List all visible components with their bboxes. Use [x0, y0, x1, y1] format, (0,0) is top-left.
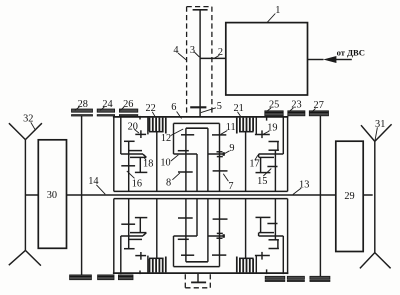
svg-text:4: 4: [173, 45, 178, 56]
svg-text:23: 23: [291, 99, 301, 110]
svg-text:6: 6: [171, 102, 176, 113]
svg-text:16: 16: [132, 179, 142, 190]
svg-text:20: 20: [128, 121, 138, 132]
svg-text:32: 32: [23, 114, 33, 125]
svg-text:22: 22: [145, 103, 155, 114]
svg-text:1: 1: [275, 5, 280, 16]
svg-text:15: 15: [257, 176, 267, 187]
svg-text:9: 9: [229, 143, 234, 154]
svg-text:19: 19: [267, 123, 277, 134]
svg-text:17: 17: [249, 159, 259, 170]
svg-text:24: 24: [102, 99, 112, 110]
svg-text:30: 30: [47, 190, 57, 201]
svg-text:от ДВС: от ДВС: [337, 47, 365, 57]
svg-text:21: 21: [233, 103, 243, 114]
svg-text:26: 26: [123, 99, 133, 110]
svg-text:31: 31: [375, 119, 385, 130]
svg-text:18: 18: [143, 159, 153, 170]
svg-text:28: 28: [78, 99, 88, 110]
svg-text:29: 29: [344, 191, 354, 202]
svg-text:3: 3: [190, 45, 195, 56]
svg-text:7: 7: [228, 181, 233, 192]
svg-text:13: 13: [299, 180, 309, 191]
svg-text:27: 27: [314, 100, 324, 111]
svg-text:25: 25: [269, 99, 279, 110]
svg-text:11: 11: [226, 122, 236, 133]
svg-text:2: 2: [218, 47, 223, 58]
svg-text:5: 5: [217, 101, 222, 112]
svg-text:10: 10: [160, 158, 170, 169]
svg-text:12: 12: [161, 133, 171, 144]
svg-text:14: 14: [88, 176, 98, 187]
svg-text:8: 8: [166, 178, 171, 189]
